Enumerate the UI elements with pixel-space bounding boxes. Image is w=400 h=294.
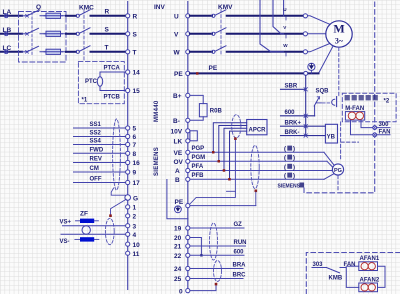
node w [283,43,288,56]
terminal motor w [303,50,307,54]
svg-text:APCR: APCR [249,128,267,134]
svg-text:YB: YB [327,135,336,141]
svg-text:SIEMENS: SIEMENS [154,147,160,176]
fan M-FAN [345,112,364,121]
contactor KMC link [83,10,85,62]
terminal A [175,168,190,175]
thermistor PTC [85,72,103,91]
label SIEMENS encoder [278,183,305,190]
terminal motor u [303,14,307,18]
terminal 0 [179,289,190,294]
terminal S [126,32,138,39]
wire fan1 branch [346,265,359,267]
svg-text:R: R [133,14,138,21]
wire BRK- [281,135,326,137]
wire OFF [74,177,126,183]
svg-text:10V: 10V [171,129,183,136]
svg-text:(: ( [284,147,286,153]
svg-text:3: 3 [133,223,137,230]
terminal 6 [126,134,137,141]
inverter left rail [127,1,129,290]
svg-text:*1: *1 [82,98,88,104]
shield drain APCR [190,140,236,204]
ground symbol PE2 [175,206,182,213]
inverter brand label SIEMENS [154,147,160,176]
svg-text:B-: B- [173,118,180,125]
svg-text:KMB: KMB [329,276,343,282]
switch SQB [314,97,321,116]
label traction machine fan (CJK) [345,95,378,100]
wire R0B to B- [190,117,203,121]
node BRK- [285,130,300,136]
terminal 9 [126,170,137,177]
svg-text:7: 7 [133,142,137,149]
node 600 [285,110,296,116]
svg-text:PE: PE [209,65,218,72]
motor M [326,21,352,47]
svg-text:16: 16 [133,160,141,167]
wire KMV to motor w [227,51,304,53]
terminal 16 [126,160,141,167]
wire B+ to R0B [190,95,203,103]
wire CM [74,166,126,172]
svg-text:5: 5 [133,126,137,133]
wire KMV to motor u [227,15,304,17]
drive inner PE corner [167,180,188,219]
terminal 17 [126,180,141,187]
junction 20-600 [200,254,202,256]
wire motor to PE diagonal [319,46,334,74]
terminal 3 [126,223,137,230]
wire RUN [190,240,247,246]
wire FAN feeder [340,268,359,288]
terminal LA [4,14,8,18]
svg-text:AFAN1: AFAN1 [360,256,380,262]
svg-text:(: ( [284,174,286,180]
machine room boundary [304,2,375,193]
svg-text:VS-: VS- [60,239,70,245]
terminal 300 [373,122,389,129]
breaker Q pole LA [26,10,66,17]
wire motor lead w [308,43,331,52]
node M-FAN [345,106,364,112]
svg-text:M: M [333,22,344,36]
svg-text:600: 600 [234,249,245,255]
terminal 20 [174,235,190,242]
svg-text:PGP: PGP [192,146,205,152]
svg-text:3~: 3~ [335,37,344,46]
junction shield dot bottom [215,283,218,286]
svg-text:PE: PE [174,71,183,78]
terminal OV [174,159,190,166]
shield drain PG to PE [255,192,257,206]
svg-text:U: U [174,14,179,21]
terminal LC [4,50,8,54]
junction dot PFA [223,169,226,172]
wire SS1 [74,122,126,128]
wire fan to FAN [351,120,391,135]
breaker Q pole LB [26,28,66,35]
svg-text:VS+: VS+ [60,219,72,225]
wire Q to KMC phase S [66,33,76,35]
svg-text:22: 22 [174,253,182,260]
wire motor lead v [308,33,326,35]
wire V to KMV [190,33,212,35]
terminal B+ [173,93,190,100]
wire VS- to 4 [61,233,126,235]
wire APCR tap PGP [213,123,246,153]
node T [105,45,109,52]
breaker Q pole LC [26,46,66,53]
svg-text:17: 17 [133,180,141,187]
wire LB input [1,33,23,35]
shield stub [227,190,236,192]
wire BRK+ [281,125,326,127]
svg-text:6: 6 [133,134,137,141]
terminal 22 [174,253,190,260]
svg-text:R0B: R0B [210,109,223,115]
svg-text:(: ( [284,165,286,171]
svg-text:AFAN2: AFAN2 [360,277,380,283]
wire PFA [190,164,333,170]
svg-text:): ) [293,165,295,171]
node R [105,9,110,16]
fuse FU-LA [46,13,61,18]
node VS+ [60,219,72,225]
control cabinet box outline [306,253,400,294]
junction BRK+ x [304,125,307,128]
contact KMC-S [76,28,90,36]
svg-text:19: 19 [174,226,182,233]
junction shield dot APCR [234,137,237,140]
jumper 10V-LK box [190,131,197,141]
node PTCA [104,65,121,71]
svg-text:8: 8 [133,151,137,158]
node PE [209,65,218,72]
svg-text:11: 11 [133,251,140,258]
contact KMV-U [212,10,226,18]
wire KMC to terminal S [91,33,126,35]
terminal LB [4,32,8,36]
dashed link encoder to boundary [337,175,339,191]
fan AFAN2 [359,277,380,291]
svg-text:LK: LK [174,139,183,146]
junction PE circle [304,71,308,75]
wire REV [74,157,126,163]
svg-text:9: 9 [133,170,137,177]
shield drain to G [111,188,126,197]
svg-text:VE: VE [174,150,183,157]
svg-text:24: 24 [174,266,182,273]
svg-text:PFA: PFA [192,164,204,170]
thermistor box outline [78,62,124,104]
svg-text:BRA: BRA [233,263,247,269]
node PTCB [104,95,121,101]
fan AFAN1 [359,256,380,270]
cable shield oval APCR leads [232,115,241,138]
terminal 10 [126,242,141,249]
svg-text:OFF: OFF [90,177,102,183]
wire VS+ to 3 [63,225,126,227]
terminal motor v [303,32,307,36]
terminal 2 [126,214,137,221]
node FAN cabinet [344,262,356,268]
svg-text:15: 15 [133,88,141,95]
svg-text:PFB: PFB [192,173,205,179]
svg-text:): ) [293,147,295,153]
node S [105,27,110,34]
cable shield oval digital inputs [113,119,121,190]
switch SQB label [316,88,330,94]
wire BRC [190,273,246,279]
breaker Q outline box [19,12,67,63]
junction BRK- x [304,134,307,137]
node LB [3,27,12,34]
wire drop to U [283,0,285,16]
svg-text:GZ: GZ [234,222,243,228]
wire BRA [190,263,246,269]
wire 20 jumper to 600 [190,238,202,256]
terminal 11 [126,251,140,258]
svg-text:SIEMENS: SIEMENS [278,184,301,190]
wire U to KMV [190,15,212,17]
terminal 21 [174,244,190,251]
svg-text:0: 0 [179,289,183,294]
contact KMB [326,268,343,282]
terminal 7 [126,142,137,149]
dashed link fan box to encoder [340,122,342,161]
terminal 25 [174,276,190,283]
svg-text:SS2: SS2 [90,131,102,137]
wire KMC to terminal T [91,51,126,53]
wire PE drop rail [305,75,307,135]
terminal W [174,50,190,57]
wire drop to V [273,0,284,34]
wire fan returns [378,266,386,287]
junction PE red dot [196,72,199,75]
svg-text:BRC: BRC [233,273,247,279]
contact KMC-R [76,10,90,18]
wire GZ [190,222,244,228]
potentiometer wiper circle [82,226,90,234]
svg-text:14: 14 [133,70,141,77]
wire 0 shield drain [190,286,216,291]
svg-text:PTCB: PTCB [104,95,121,101]
terminal LK [174,139,190,146]
wire drop to W [260,0,284,52]
label wire color green [284,155,295,162]
svg-text:V: V [174,32,179,39]
svg-text:R: R [105,9,110,16]
svg-text:T: T [105,45,109,52]
inverter right rail [187,1,189,292]
terminal T [126,50,137,57]
junction SBR x [304,88,307,91]
svg-text:): ) [293,174,295,180]
node v [283,25,287,38]
svg-text:S: S [133,32,138,39]
wire PE bus [190,72,319,74]
node SBR [285,84,298,90]
note *2 [384,99,390,105]
svg-text:B: B [175,177,180,184]
node BRK+ [285,121,302,127]
svg-text:(: ( [284,156,286,162]
contact KMV-V [212,28,226,36]
contact KMC-T [76,46,90,54]
terminal 24 [174,266,190,273]
svg-text:T: T [133,50,137,57]
svg-text:SQB: SQB [316,88,330,94]
brake coil YB [325,124,337,143]
wire LA input [1,15,23,17]
contactor KMC label [79,5,94,12]
node VS- [60,239,70,245]
terminal PE [174,71,190,78]
wire PGP [190,146,324,152]
terminal B [175,177,190,184]
fuse FU-LB [46,31,61,36]
terminal U [174,14,190,21]
svg-text:PG: PG [334,168,342,174]
contactor KMV link [220,10,222,55]
terminal R [126,14,138,21]
wire G shield drain diagonal [111,199,127,216]
junction 600 x [304,114,307,117]
terminal 19 [174,226,190,233]
terminal FAN [373,129,391,136]
note *1 [82,98,88,104]
wire PTCA to 14 [100,71,126,73]
encoder PG [324,152,344,179]
terminal B- [173,118,190,125]
svg-text:A: A [175,168,180,175]
wire fan to 300 [361,120,390,128]
resistor R0B [199,104,222,117]
terminal 4 [126,232,137,239]
wire APCR tap PGM [219,126,247,162]
svg-text:FWD: FWD [90,147,104,153]
svg-text:S: S [105,27,110,34]
node 303 [313,262,324,268]
wire LC input [1,51,23,53]
wire Q to KMC phase T [66,51,76,53]
controller APCR [247,120,267,135]
svg-text:KMC: KMC [79,5,94,12]
svg-text:PTC: PTC [85,79,98,85]
svg-text:CM: CM [90,166,99,172]
svg-text:B+: B+ [173,93,182,100]
node u [283,7,287,20]
wire APCR tap PFB [230,131,247,179]
wire KMC to terminal R [91,15,126,17]
cable shield oval brake group [214,261,222,282]
svg-text:G: G [133,196,138,203]
svg-text:SBR: SBR [285,84,298,90]
svg-text:SS1: SS1 [90,122,102,128]
terminal 15 [126,88,141,95]
terminal VE [174,150,190,157]
svg-text:2: 2 [133,214,137,221]
wire motor lead u [308,16,331,25]
label wire color yellow [284,173,295,180]
svg-text:ZF: ZF [80,211,88,218]
svg-text:MM440: MM440 [154,100,160,122]
wire 303 [312,267,326,269]
terminal V [174,32,190,39]
svg-text:FAN: FAN [379,129,391,135]
svg-text:INV: INV [154,4,166,11]
wire SS4 [74,139,126,145]
svg-text:1: 1 [133,205,137,212]
resistor ZF upper [76,219,99,223]
svg-text:PGM: PGM [192,155,206,161]
terminal 8 [126,151,137,158]
terminal 5 [126,126,137,133]
wire PFB [190,173,324,179]
terminal 1 [126,205,137,212]
fuse FU-LC [46,49,61,54]
contact KMV-W [212,46,226,54]
svg-text:SS4: SS4 [90,139,102,145]
potentiometer ZF label [80,211,88,218]
svg-text:4: 4 [133,232,137,239]
terminal G [125,195,138,203]
label wire color white [284,164,295,171]
svg-text:OV: OV [174,159,184,166]
wire 600 [281,115,315,117]
junction dot PGM [218,160,221,163]
svg-text:RUN: RUN [234,240,247,246]
breaker Q label [36,4,41,11]
breaker Q mechanical link [31,13,33,57]
inverter type label MM440 [154,100,160,122]
traction fan box outline [342,93,396,122]
contactor KMV label [218,4,233,11]
svg-text:300: 300 [379,122,390,128]
wire 600b [190,249,244,255]
svg-text:PTCA: PTCA [104,65,121,71]
cable shield oval analog [105,218,114,244]
dashed motor internal fan link [338,47,340,97]
svg-text:W: W [174,50,181,57]
junction shield red dot [109,214,112,217]
wire FWD [74,147,126,153]
svg-text:REV: REV [90,157,102,163]
svg-text:): ) [293,156,295,162]
wire Q to KMC phase R [66,15,76,17]
svg-text:25: 25 [174,276,182,283]
wire PGM [190,155,327,161]
wire KMV to motor v [227,33,304,35]
svg-text:10: 10 [133,242,141,249]
wire PE2 bus [190,205,256,207]
wire PTCB to 15 [100,90,126,92]
resistor ZF lower [75,237,99,241]
cable shield oval run group [210,223,218,260]
node LA [3,9,12,16]
wire W to KMV [190,51,212,53]
inverter INV label [154,4,166,11]
terminal 14 [126,70,141,77]
junction dot PGP [212,151,215,154]
wire SS2 [74,131,126,137]
svg-text:PE: PE [175,199,184,206]
svg-text:21: 21 [174,244,182,251]
wire SBR [281,88,306,90]
label wire color red [284,146,295,153]
svg-text:20: 20 [174,235,182,242]
